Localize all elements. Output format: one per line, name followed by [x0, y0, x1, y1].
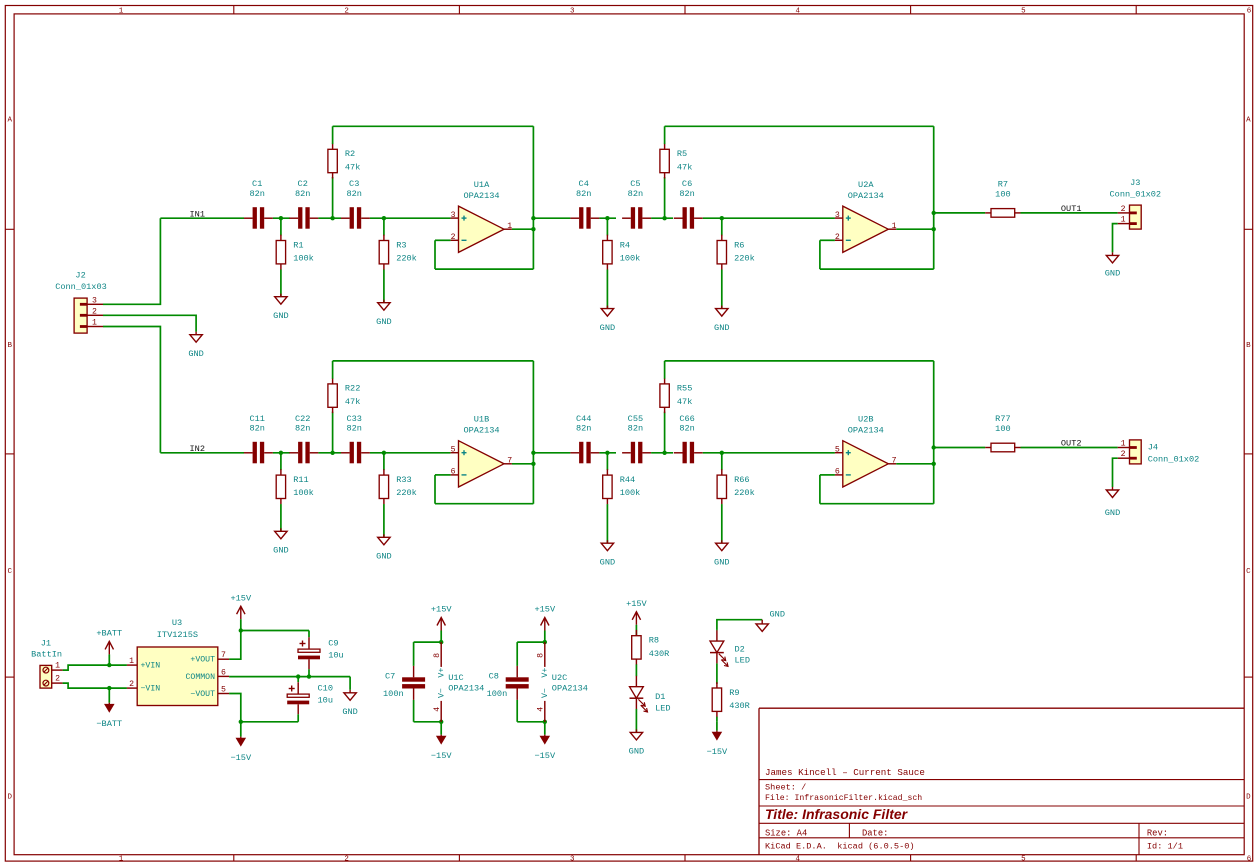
junction node6 [720, 216, 724, 220]
svg-text:GND: GND [1105, 508, 1120, 518]
resistor R3 220k [379, 235, 417, 270]
capacitor C22 82n [289, 414, 318, 464]
wire gnd to D2 [717, 620, 762, 630]
wire node4-R4 [606, 218, 608, 235]
capacitor C11 82n [244, 414, 273, 464]
svg-text:47k: 47k [345, 162, 360, 172]
svg-text:James Kincell – Current Sauce: James Kincell – Current Sauce [765, 767, 925, 778]
LED D1 [630, 676, 671, 714]
svg-text:1: 1 [892, 222, 897, 231]
wire node5-R5 [664, 177, 666, 218]
junction +BATT node [107, 663, 111, 667]
svg-text:C66: C66 [679, 414, 694, 424]
wire +VOUT riser [229, 631, 241, 660]
svg-text:2: 2 [835, 233, 840, 242]
svg-text:U2C: U2C [552, 673, 567, 683]
svg-text:C11: C11 [249, 414, 264, 424]
svg-text:U1C: U1C [448, 673, 463, 683]
svg-text:B: B [7, 342, 12, 350]
svg-text:3: 3 [835, 211, 840, 220]
power symbol +15V at C8 [534, 605, 555, 643]
wire R6-gnd [721, 504, 723, 543]
wire U2 fb vert [933, 361, 935, 504]
svg-text:GND: GND [342, 707, 357, 717]
svg-text:220k: 220k [396, 254, 417, 264]
power symbol GND at R44 [600, 540, 615, 567]
svg-text:V−: V− [438, 688, 447, 698]
wire node1-R1 [280, 453, 282, 470]
svg-text:OUT1: OUT1 [1061, 204, 1082, 214]
svg-text:C6: C6 [682, 179, 692, 189]
svg-text:LED: LED [735, 656, 750, 666]
junction U2 out node b [932, 227, 936, 231]
power symbol GND at R1 [273, 294, 288, 321]
junction node3 [382, 451, 386, 455]
svg-text:+15V: +15V [626, 599, 647, 609]
svg-text:J3: J3 [1130, 178, 1140, 188]
svg-text:82n: 82n [628, 189, 643, 199]
svg-text:GND: GND [714, 558, 729, 568]
capacitor C66 82n [674, 414, 703, 464]
wire R3-gnd [383, 504, 385, 537]
wire R7-J [1021, 212, 1118, 214]
svg-text:6: 6 [451, 468, 456, 477]
svg-text:Title: Infrasonic Filter: Title: Infrasonic Filter [765, 806, 909, 822]
wire fb top 1 [333, 125, 534, 127]
wire R7-J [1021, 447, 1118, 449]
wire C1-node1 [273, 452, 290, 454]
resistor R1 100k [276, 235, 314, 270]
power symbol -15V at C8 [534, 722, 555, 761]
wire C4-node4 [599, 217, 616, 219]
svg-text:OPA2134: OPA2134 [463, 191, 499, 201]
svg-text:Conn_01x02: Conn_01x02 [1110, 190, 1162, 200]
svg-text:−VIN: −VIN [141, 685, 161, 694]
svg-text:U1A: U1A [474, 180, 490, 190]
svg-text:6: 6 [221, 668, 226, 677]
junction U1 out node b [531, 462, 535, 466]
svg-text:+15V: +15V [431, 605, 452, 615]
resistor R66 220k [717, 469, 755, 504]
op-amp U1A OPA2134 [451, 180, 513, 252]
svg-text:430R: 430R [649, 649, 670, 659]
wire R4-gnd [606, 270, 608, 309]
resistor R4 100k [603, 235, 641, 270]
svg-text:J1: J1 [41, 638, 51, 648]
svg-text:LED: LED [655, 703, 670, 713]
wire node5-R5 [664, 412, 666, 453]
power symbol -15V at C7 [431, 722, 452, 761]
power symbol -15V at U3 [230, 722, 251, 763]
svg-text:C4: C4 [579, 179, 589, 189]
svg-text:−15V: −15V [230, 753, 251, 763]
wire C7 left down [413, 642, 415, 666]
svg-text:Conn_01x02: Conn_01x02 [1148, 454, 1200, 464]
connector J3 Conn_01x02 [1110, 178, 1162, 229]
wire U2 fb left [819, 240, 821, 269]
svg-text:−BATT: −BATT [96, 719, 122, 729]
svg-text:7: 7 [892, 457, 897, 466]
power symbol GND at R66 [714, 540, 729, 567]
svg-text:5: 5 [835, 445, 840, 454]
svg-text:OPA2134: OPA2134 [552, 683, 588, 693]
wire U1 out [512, 463, 534, 465]
svg-text:Date:: Date: [862, 829, 888, 839]
svg-text:A: A [1246, 116, 1251, 124]
svg-text:C9: C9 [328, 638, 338, 648]
wire R8-D1 [635, 664, 637, 676]
junction node2 [330, 451, 334, 455]
junction U2 out node a [932, 211, 936, 215]
svg-text:OPA2134: OPA2134 [448, 683, 484, 693]
svg-text:3: 3 [570, 856, 575, 864]
svg-text:OUT2: OUT2 [1061, 439, 1082, 449]
wire node6-R6 [721, 453, 723, 470]
svg-text:10u: 10u [328, 650, 343, 660]
svg-text:1: 1 [119, 856, 124, 864]
power symbol GND at R11 [273, 528, 288, 555]
capacitor C3 82n [341, 179, 370, 229]
wire U2 fb bottom [820, 268, 934, 270]
wire J2.1 to IN2 [103, 327, 160, 453]
wire C4-node4 [599, 452, 616, 454]
wire C7 top [414, 641, 442, 643]
svg-text:8: 8 [433, 653, 442, 658]
wire U1 fb vert [532, 126, 534, 269]
wire C8 bottom [517, 721, 545, 723]
svg-text:COMMON: COMMON [186, 673, 216, 682]
wire C9 top [308, 631, 310, 638]
svg-text:4: 4 [537, 707, 546, 712]
svg-text:220k: 220k [396, 488, 417, 498]
svg-text:5: 5 [451, 445, 456, 454]
wire IN2 input [160, 452, 244, 454]
power symbol +15V at C7 [431, 605, 452, 643]
wire R1-gnd [280, 504, 282, 531]
wire node3-R3 [383, 453, 385, 470]
wire stage2 in [533, 217, 570, 219]
junction U1 out node a [531, 216, 535, 220]
junction node5 [662, 216, 666, 220]
svg-text:2: 2 [1121, 205, 1126, 214]
svg-text:82n: 82n [346, 424, 361, 434]
svg-text:82n: 82n [249, 189, 264, 199]
svg-text:3: 3 [92, 297, 97, 306]
wire U2 out [896, 463, 934, 465]
wire fb top 1 [333, 360, 534, 362]
wire out-R7 [934, 212, 986, 214]
svg-text:220k: 220k [734, 254, 755, 264]
svg-text:GND: GND [600, 558, 615, 568]
resistor R11 100k [276, 469, 314, 504]
svg-text:IN1: IN1 [190, 209, 205, 219]
power symbol GND at D1 [629, 729, 644, 756]
svg-text:2: 2 [129, 680, 134, 689]
svg-text:6: 6 [1247, 856, 1252, 864]
wire stage2 in [533, 452, 570, 454]
resistor R77 100 [985, 414, 1020, 452]
junction node3 [382, 216, 386, 220]
power symbol GND at R6 [714, 306, 729, 333]
junction -15V node [239, 720, 243, 724]
junction U2 out node b [932, 462, 936, 466]
wire C7 bottom [414, 721, 442, 723]
svg-text:Id: 1/1: Id: 1/1 [1147, 841, 1183, 851]
svg-text:KiCad E.D.A. kicad (6.0.5-0): KiCad E.D.A. kicad (6.0.5-0) [765, 841, 915, 851]
wire -15V link [241, 721, 298, 723]
svg-text:C3: C3 [349, 179, 359, 189]
svg-text:OPA2134: OPA2134 [848, 191, 884, 201]
svg-text:GND: GND [629, 747, 644, 757]
svg-text:7: 7 [507, 457, 512, 466]
svg-text:BattIn: BattIn [31, 650, 62, 660]
wire U1 -in [435, 474, 451, 476]
DC-DC converter U3 ITV1215S [127, 618, 229, 706]
svg-text:−15V: −15V [534, 751, 555, 761]
power symbol GND at R33 [376, 534, 391, 561]
svg-text:47k: 47k [677, 397, 692, 407]
svg-text:R22: R22 [345, 384, 360, 394]
wire U1 fb bottom [435, 503, 533, 505]
junction node4 [605, 216, 609, 220]
svg-text:C: C [7, 568, 12, 576]
svg-text:5: 5 [1021, 7, 1026, 15]
LED D2 [710, 630, 750, 666]
svg-text:R2: R2 [345, 149, 355, 159]
svg-text:IN2: IN2 [190, 444, 205, 454]
op-amp U1B OPA2134 [451, 415, 513, 487]
svg-text:C44: C44 [576, 414, 591, 424]
junction C9-common [307, 674, 311, 678]
wire C8 left low [516, 700, 518, 722]
op-amp U2B OPA2134 [835, 415, 897, 487]
svg-text:82n: 82n [346, 189, 361, 199]
svg-text:C1: C1 [252, 179, 262, 189]
wire C6-node6 [703, 452, 835, 454]
junction C8 top node [543, 640, 547, 644]
wire C10 top [297, 677, 299, 683]
svg-text:A: A [7, 116, 12, 124]
wire U1 fb left [434, 475, 436, 504]
wire U2 -in [820, 474, 835, 476]
svg-text:C2: C2 [298, 179, 308, 189]
junction C8 bottom node [543, 720, 547, 724]
wire U1 fb left [434, 240, 436, 269]
svg-text:C22: C22 [295, 414, 310, 424]
wire J2.3 to IN1 [103, 218, 160, 304]
svg-text:R55: R55 [677, 384, 692, 394]
svg-text:47k: 47k [345, 397, 360, 407]
wire R5-fb [664, 361, 666, 379]
svg-text:GND: GND [376, 552, 391, 562]
resistor R2 47k [328, 144, 360, 179]
svg-text:J2: J2 [75, 270, 85, 280]
resistor R9 430R [712, 682, 750, 717]
wire J1.1 to +VIN [63, 665, 127, 670]
svg-text:C33: C33 [346, 414, 361, 424]
svg-text:GND: GND [273, 546, 288, 556]
svg-text:2: 2 [55, 675, 60, 684]
svg-text:1: 1 [119, 7, 124, 15]
wire R4-gnd [606, 504, 608, 543]
svg-text:Rev:: Rev: [1147, 829, 1168, 839]
wire R3-gnd [383, 270, 385, 303]
wire R9-down [716, 717, 718, 722]
power symbol +BATT [96, 629, 122, 666]
junction U2 out node a [932, 445, 936, 449]
wire common drop [349, 677, 351, 690]
svg-text:82n: 82n [576, 424, 591, 434]
wire C5-node5 [651, 217, 673, 219]
svg-text:+VIN: +VIN [141, 662, 161, 671]
wire J1.2 to -VIN [63, 683, 127, 688]
svg-text:1: 1 [1121, 440, 1126, 449]
svg-text:4: 4 [796, 7, 801, 15]
svg-text:J4: J4 [1148, 443, 1158, 453]
junction U1 out node b [531, 227, 535, 231]
wire U2 -in [820, 239, 835, 241]
capacitor C8 100n [487, 666, 529, 700]
svg-text:Sheet: /: Sheet: / [765, 782, 806, 792]
svg-text:GND: GND [770, 610, 785, 620]
svg-text:C8: C8 [489, 671, 499, 681]
wire U2 out [896, 228, 934, 230]
title block [759, 708, 1244, 855]
svg-text:R9: R9 [729, 688, 739, 698]
svg-text:D2: D2 [735, 645, 745, 655]
svg-text:10u: 10u [318, 695, 333, 705]
wire U1 -in [435, 239, 451, 241]
svg-text:2: 2 [451, 233, 456, 242]
wire C2-node2 [318, 217, 341, 219]
svg-text:82n: 82n [249, 424, 264, 434]
svg-text:+15V: +15V [230, 593, 251, 603]
svg-text:82n: 82n [679, 424, 694, 434]
wire R5-fb [664, 126, 666, 144]
svg-text:82n: 82n [628, 424, 643, 434]
svg-text:100n: 100n [487, 689, 508, 699]
svg-text:+BATT: +BATT [96, 629, 122, 639]
junction C7 top node [439, 640, 443, 644]
svg-text:430R: 430R [729, 701, 750, 711]
capacitor C44 82n [570, 414, 599, 464]
svg-text:−15V: −15V [707, 747, 728, 757]
svg-text:1: 1 [55, 662, 60, 671]
wire node2-R2 [332, 412, 334, 453]
svg-text:R4: R4 [620, 240, 630, 250]
resistor R7 100 [985, 179, 1020, 217]
capacitor C2 82n [289, 179, 318, 229]
capacitor C4 82n [570, 179, 599, 229]
junction node6 [720, 451, 724, 455]
resistor R22 47k [328, 378, 360, 413]
svg-text:V+: V+ [541, 668, 550, 678]
power symbol GND at R3 [376, 300, 391, 327]
wire R6-gnd [721, 270, 723, 309]
op-amp power unit U1C [433, 642, 484, 722]
power symbol GND at J4 [1105, 487, 1120, 518]
power symbol GND at J2 [188, 332, 203, 359]
svg-text:D: D [7, 794, 12, 802]
capacitor C10 10u [287, 682, 333, 714]
wire fb top 2 [665, 125, 934, 127]
power symbol GND at D2 [756, 610, 785, 632]
wire C9 bottom [308, 669, 310, 676]
wire U1 out [512, 228, 534, 230]
svg-text:5: 5 [221, 686, 226, 695]
wire D1-gnd [635, 709, 637, 733]
resistor R5 47k [660, 144, 692, 179]
svg-text:3: 3 [570, 7, 575, 15]
wire IN1 input [160, 217, 244, 219]
power symbol GND at J3 [1105, 252, 1120, 278]
wire U2 fb left [819, 475, 821, 504]
connector J2 Conn_01x03 [55, 270, 107, 333]
power symbol GND at R4 [600, 306, 615, 333]
wire U1 fb vert [532, 361, 534, 504]
junction C7 bottom node [439, 720, 443, 724]
capacitor C5 82n [622, 179, 651, 229]
wire fb top 2 [665, 360, 934, 362]
svg-text:1: 1 [1121, 216, 1126, 225]
wire C8 top [517, 641, 545, 643]
wire J3 gnd [1113, 224, 1118, 253]
power symbol +15V at R8 [626, 599, 647, 636]
resistor R55 47k [660, 378, 692, 413]
wire J4 gnd [1113, 458, 1118, 487]
svg-text:82n: 82n [295, 189, 310, 199]
svg-text:−VOUT: −VOUT [190, 690, 215, 699]
wire node4-R4 [606, 453, 608, 470]
svg-text:R33: R33 [396, 475, 411, 485]
wire U1 fb bottom [435, 268, 533, 270]
junction -BATT node [107, 686, 111, 690]
junction node5 [662, 451, 666, 455]
svg-text:V−: V− [541, 688, 550, 698]
capacitor C6 82n [674, 179, 703, 229]
svg-text:2: 2 [1121, 450, 1126, 459]
resistor R8 430R [632, 630, 670, 665]
wire -VOUT drop [229, 694, 241, 722]
svg-text:100: 100 [995, 424, 1010, 434]
svg-text:OPA2134: OPA2134 [848, 425, 884, 435]
wire C1-node1 [273, 217, 290, 219]
svg-text:C55: C55 [628, 414, 643, 424]
svg-text:R11: R11 [293, 475, 308, 485]
resistor R33 220k [379, 469, 417, 504]
svg-text:R3: R3 [396, 240, 406, 250]
svg-text:OPA2134: OPA2134 [463, 425, 499, 435]
svg-text:82n: 82n [295, 424, 310, 434]
svg-text:220k: 220k [734, 488, 755, 498]
wire D2-R9 [716, 663, 718, 684]
svg-text:GND: GND [600, 323, 615, 333]
wire node6-R6 [721, 218, 723, 235]
capacitor C7 100n [383, 666, 425, 700]
svg-text:GND: GND [273, 311, 288, 321]
junction node4 [605, 451, 609, 455]
svg-text:4: 4 [796, 856, 801, 864]
svg-text:D: D [1246, 794, 1251, 802]
svg-text:100k: 100k [293, 488, 314, 498]
power symbol -BATT [96, 688, 122, 729]
svg-text:GND: GND [188, 349, 203, 359]
svg-text:Size: A4: Size: A4 [765, 829, 807, 839]
svg-text:100k: 100k [293, 254, 314, 264]
svg-text:7: 7 [221, 651, 226, 660]
wire C3-node3 [370, 452, 451, 454]
wire R2-fb [332, 126, 334, 144]
